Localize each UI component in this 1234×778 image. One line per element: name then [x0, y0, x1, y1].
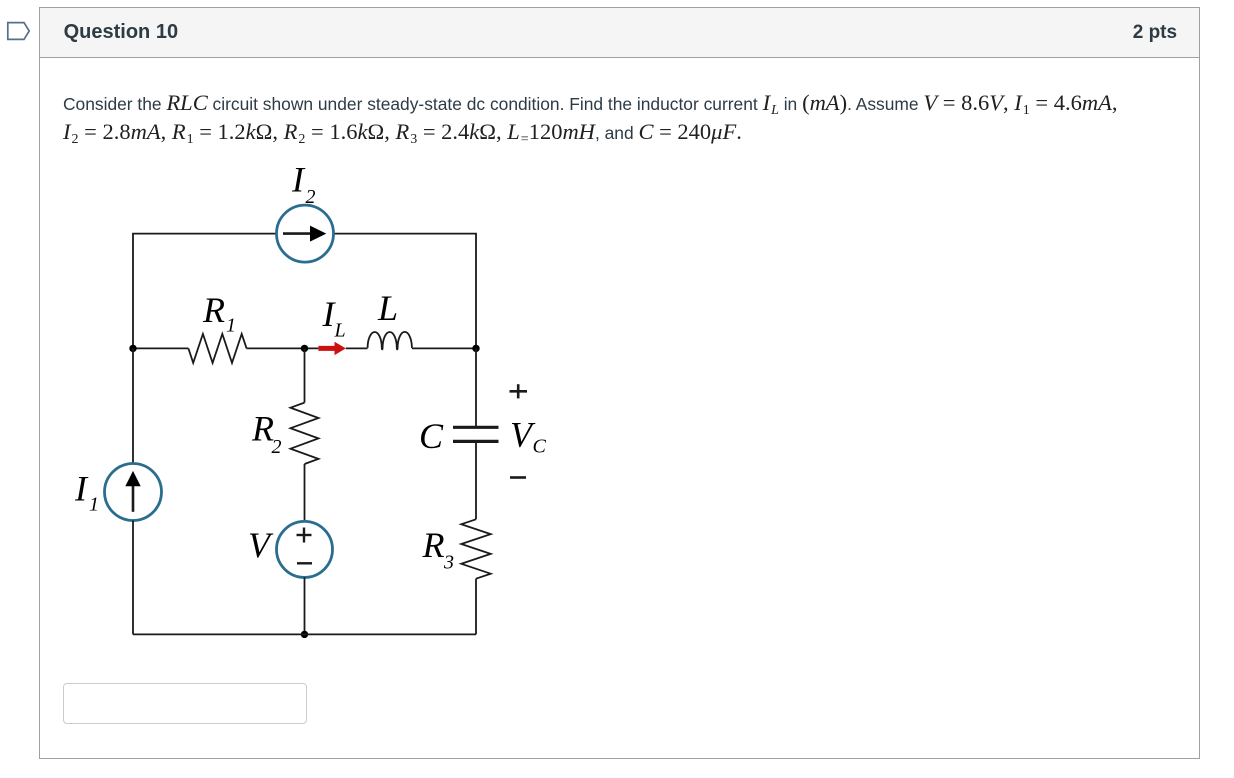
- wire right upper: [475, 348, 477, 427]
- wire R2 to V source: [304, 464, 306, 521]
- capacitor C: [453, 426, 499, 429]
- flag/bookmark icon: [0, 0, 40, 50]
- svg-text:I: I: [291, 160, 306, 200]
- svg-text:V: V: [248, 525, 274, 565]
- resistor R1: [188, 334, 246, 363]
- svg-text:1: 1: [89, 494, 99, 516]
- wire cap to R3: [475, 441, 477, 519]
- svg-text:2: 2: [272, 436, 282, 458]
- current source I1: [105, 464, 162, 521]
- node dot mid-right: [472, 345, 479, 352]
- current arrow IL (red): [318, 346, 336, 351]
- voltage source V: [277, 521, 333, 577]
- svg-text:1: 1: [226, 315, 236, 337]
- node dot bottom: [301, 631, 308, 638]
- wire left upper: [132, 348, 134, 463]
- wire top: left corner to I2: [133, 234, 277, 349]
- svg-text:I: I: [74, 468, 89, 508]
- inductor L: [368, 332, 412, 350]
- wire middle branch upper: [304, 348, 306, 402]
- wire mid-center: [247, 347, 319, 349]
- wire mid-left: [133, 347, 188, 349]
- svg-text:L: L: [377, 288, 398, 328]
- answer input box: [63, 683, 307, 724]
- wire bottom: [133, 633, 476, 635]
- wire before inductor: [346, 347, 368, 349]
- wire R3 to bottom: [475, 579, 477, 635]
- resistor R2: [291, 403, 319, 464]
- svg-text:R: R: [422, 525, 445, 565]
- svg-text:R: R: [202, 290, 225, 330]
- label VC with polarity: [510, 390, 528, 393]
- svg-text:2: 2: [306, 186, 316, 208]
- node dot mid-left: [129, 345, 136, 352]
- wire V to bottom: [304, 577, 306, 634]
- svg-text:C: C: [419, 416, 444, 456]
- svg-text:C: C: [533, 436, 547, 458]
- resistor R3: [461, 519, 490, 578]
- wire after inductor: [412, 347, 476, 349]
- wire top: I2 to right corner: [334, 234, 477, 349]
- wire left lower: [132, 521, 134, 635]
- svg-text:3: 3: [443, 552, 454, 574]
- current source I2: [277, 205, 334, 262]
- node dot mid-center: [301, 345, 308, 352]
- svg-text:L: L: [334, 320, 346, 342]
